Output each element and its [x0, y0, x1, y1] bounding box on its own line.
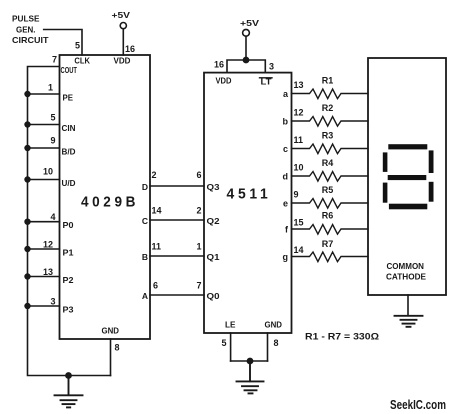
svg-text:10: 10: [43, 167, 53, 177]
svg-text:B: B: [142, 252, 148, 262]
junction at 4511 ground node: [247, 358, 252, 363]
svg-text:CLK: CLK: [74, 55, 90, 65]
wire display common to ground: [407, 295, 409, 316]
svg-text:11: 11: [152, 242, 162, 252]
wire stub P2 pin 13: [28, 276, 60, 278]
svg-text:6: 6: [153, 281, 158, 291]
svg-text:R7: R7: [322, 239, 334, 249]
+5V supply terminal (4511): [243, 29, 250, 36]
svg-text:C: C: [142, 216, 148, 226]
svg-text:9: 9: [50, 136, 55, 146]
resistor R1 (segment a, pin 13): [283, 76, 368, 99]
segment b: [429, 150, 434, 173]
svg-text:e: e: [283, 198, 288, 208]
resistor R6 (segment f, pin 15): [285, 211, 368, 235]
svg-text:R4: R4: [322, 158, 334, 168]
svg-text:c: c: [283, 144, 288, 154]
svg-text:8: 8: [115, 343, 120, 353]
wire stub P1 pin 12: [28, 248, 60, 250]
svg-text:7: 7: [196, 281, 201, 291]
+5V supply terminal (4029B): [120, 23, 126, 29]
svg-text:12: 12: [43, 240, 53, 250]
junction on bus at P2: [25, 274, 30, 279]
junction on bus at B/D: [25, 146, 30, 151]
segment c: [429, 182, 434, 202]
junction on bus at P3: [25, 304, 30, 309]
svg-text:R2: R2: [322, 103, 334, 113]
svg-text:R6: R6: [322, 211, 334, 221]
resistor R7 (segment g, pin 14): [283, 239, 369, 262]
svg-text:b: b: [283, 116, 289, 126]
wire VDD-LT tie bar: [227, 60, 265, 73]
svg-text:P1: P1: [63, 247, 74, 257]
svg-text:14: 14: [152, 206, 162, 216]
wire tying LE and GND: [231, 360, 268, 362]
svg-text:SeekIC.com: SeekIC.com: [390, 398, 446, 412]
wire GND pin 8 to ground: [267, 333, 269, 361]
svg-text:PE: PE: [63, 92, 74, 102]
IC U1 4029B body: [60, 55, 151, 339]
svg-text:P3: P3: [63, 304, 74, 314]
wire stub U/D pin 10: [28, 179, 60, 181]
wire D output to Q3 input: [150, 185, 204, 187]
svg-text:Q3: Q3: [207, 182, 220, 192]
svg-text:4029B: 4029B: [81, 194, 139, 211]
svg-text:Q0: Q0: [207, 291, 220, 301]
pulse generator circuit label: [12, 14, 49, 45]
svg-text:7: 7: [52, 55, 57, 65]
svg-text:VDD: VDD: [216, 76, 232, 86]
svg-text:A: A: [142, 291, 148, 301]
svg-text:14: 14: [294, 245, 304, 255]
svg-text:+5V: +5V: [112, 10, 131, 20]
junction at +5V tie: [243, 57, 248, 62]
svg-text:Q1: Q1: [207, 252, 220, 262]
svg-text:4511: 4511: [227, 185, 272, 202]
junction on bus at PE: [25, 92, 30, 97]
segment d: [389, 204, 427, 210]
svg-text:CATHODE: CATHODE: [386, 273, 426, 282]
svg-text:CIN: CIN: [62, 123, 76, 133]
svg-text:D: D: [142, 182, 148, 192]
svg-text:a: a: [283, 89, 289, 99]
svg-text:3: 3: [50, 297, 55, 307]
svg-text:R1 - R7 = 330Ω: R1 - R7 = 330Ω: [305, 332, 379, 343]
junction on bus at P1: [25, 247, 30, 252]
svg-text:5: 5: [50, 113, 55, 123]
wire stub PE pin 1: [28, 93, 60, 95]
svg-text:VDD: VDD: [114, 55, 131, 65]
ground symbol (right): [395, 316, 423, 327]
junction on bus at U/D: [25, 177, 30, 182]
svg-text:f: f: [285, 224, 289, 234]
svg-text:5: 5: [221, 338, 226, 348]
svg-text:16: 16: [214, 60, 224, 70]
junction on bus at CIN: [25, 122, 30, 127]
segment e: [383, 183, 388, 203]
wire stub B/D pin 9: [28, 147, 60, 149]
svg-text:6: 6: [196, 170, 201, 180]
wire LE pin 5 to ground: [230, 333, 232, 361]
svg-text:+5V: +5V: [240, 18, 259, 28]
wire stub CIN pin 5: [28, 124, 60, 126]
resistor R3 (segment c, pin 11): [283, 131, 368, 154]
seven segment digit 8: segment a: [388, 144, 427, 149]
svg-text:16: 16: [125, 44, 135, 54]
svg-text:1: 1: [48, 83, 53, 93]
svg-text:g: g: [283, 252, 289, 262]
svg-text:d: d: [283, 171, 289, 181]
svg-text:R5: R5: [322, 185, 334, 195]
segment g: [388, 175, 427, 180]
svg-text:3: 3: [269, 62, 274, 72]
resistor R5 (segment e, pin 9): [283, 185, 368, 208]
svg-text:5: 5: [75, 41, 80, 51]
wire pulse gen to CLK pin 5: [44, 30, 82, 56]
svg-text:9: 9: [294, 190, 299, 200]
svg-text:PULSE: PULSE: [12, 14, 40, 24]
svg-text:P2: P2: [63, 275, 74, 285]
svg-text:Q2: Q2: [207, 216, 220, 226]
svg-text:P0: P0: [63, 220, 74, 230]
svg-text:COMMON: COMMON: [387, 262, 425, 271]
wire A output to Q0 input: [150, 294, 204, 296]
display module body: [368, 58, 446, 295]
resistor R2 (segment b, pin 12): [283, 103, 369, 126]
svg-text:U/D: U/D: [62, 178, 76, 188]
svg-text:13: 13: [43, 267, 53, 277]
svg-text:R3: R3: [322, 131, 334, 141]
svg-text:2: 2: [152, 170, 157, 180]
svg-text:COUT: COUT: [61, 65, 78, 75]
wire +5V down to VDD/LT tie: [245, 36, 247, 60]
svg-text:GND: GND: [102, 326, 120, 336]
left bus wire (COUT feedback to preset/control pins): [28, 67, 111, 376]
svg-text:10: 10: [294, 163, 304, 173]
svg-text:1: 1: [196, 242, 201, 252]
svg-text:LE: LE: [225, 319, 236, 329]
svg-text:2: 2: [196, 206, 201, 216]
ground symbol (middle): [237, 361, 264, 393]
segment f: [383, 152, 388, 172]
wire stub P0 pin 4: [28, 221, 60, 223]
wire +5V to VDD pin 16: [122, 29, 124, 55]
svg-text:13: 13: [294, 80, 304, 90]
wire C output to Q2 input: [150, 219, 204, 221]
svg-text:GEN.: GEN.: [16, 24, 36, 34]
svg-text:GND: GND: [265, 319, 283, 329]
junction ground node: [66, 373, 71, 378]
svg-text:12: 12: [294, 108, 304, 118]
wire stub P3 pin 3: [28, 305, 60, 307]
junction on bus at P0: [25, 219, 30, 224]
wire 4029B GND pin to ground rail: [110, 339, 112, 376]
svg-text:4: 4: [50, 212, 55, 222]
IC U2 4511 body: [204, 73, 292, 333]
svg-text:15: 15: [294, 218, 304, 228]
ground symbol (left): [55, 376, 83, 408]
svg-text:8: 8: [274, 338, 279, 348]
svg-text:11: 11: [294, 135, 304, 145]
label COMMON CATHODE: [386, 262, 426, 282]
svg-text:B/D: B/D: [62, 146, 76, 156]
resistor R4 (segment d, pin 10): [283, 158, 369, 181]
svg-text:R1: R1: [322, 76, 334, 86]
wire B output to Q1 input: [150, 255, 204, 257]
svg-text:CIRCUIT: CIRCUIT: [12, 35, 49, 45]
